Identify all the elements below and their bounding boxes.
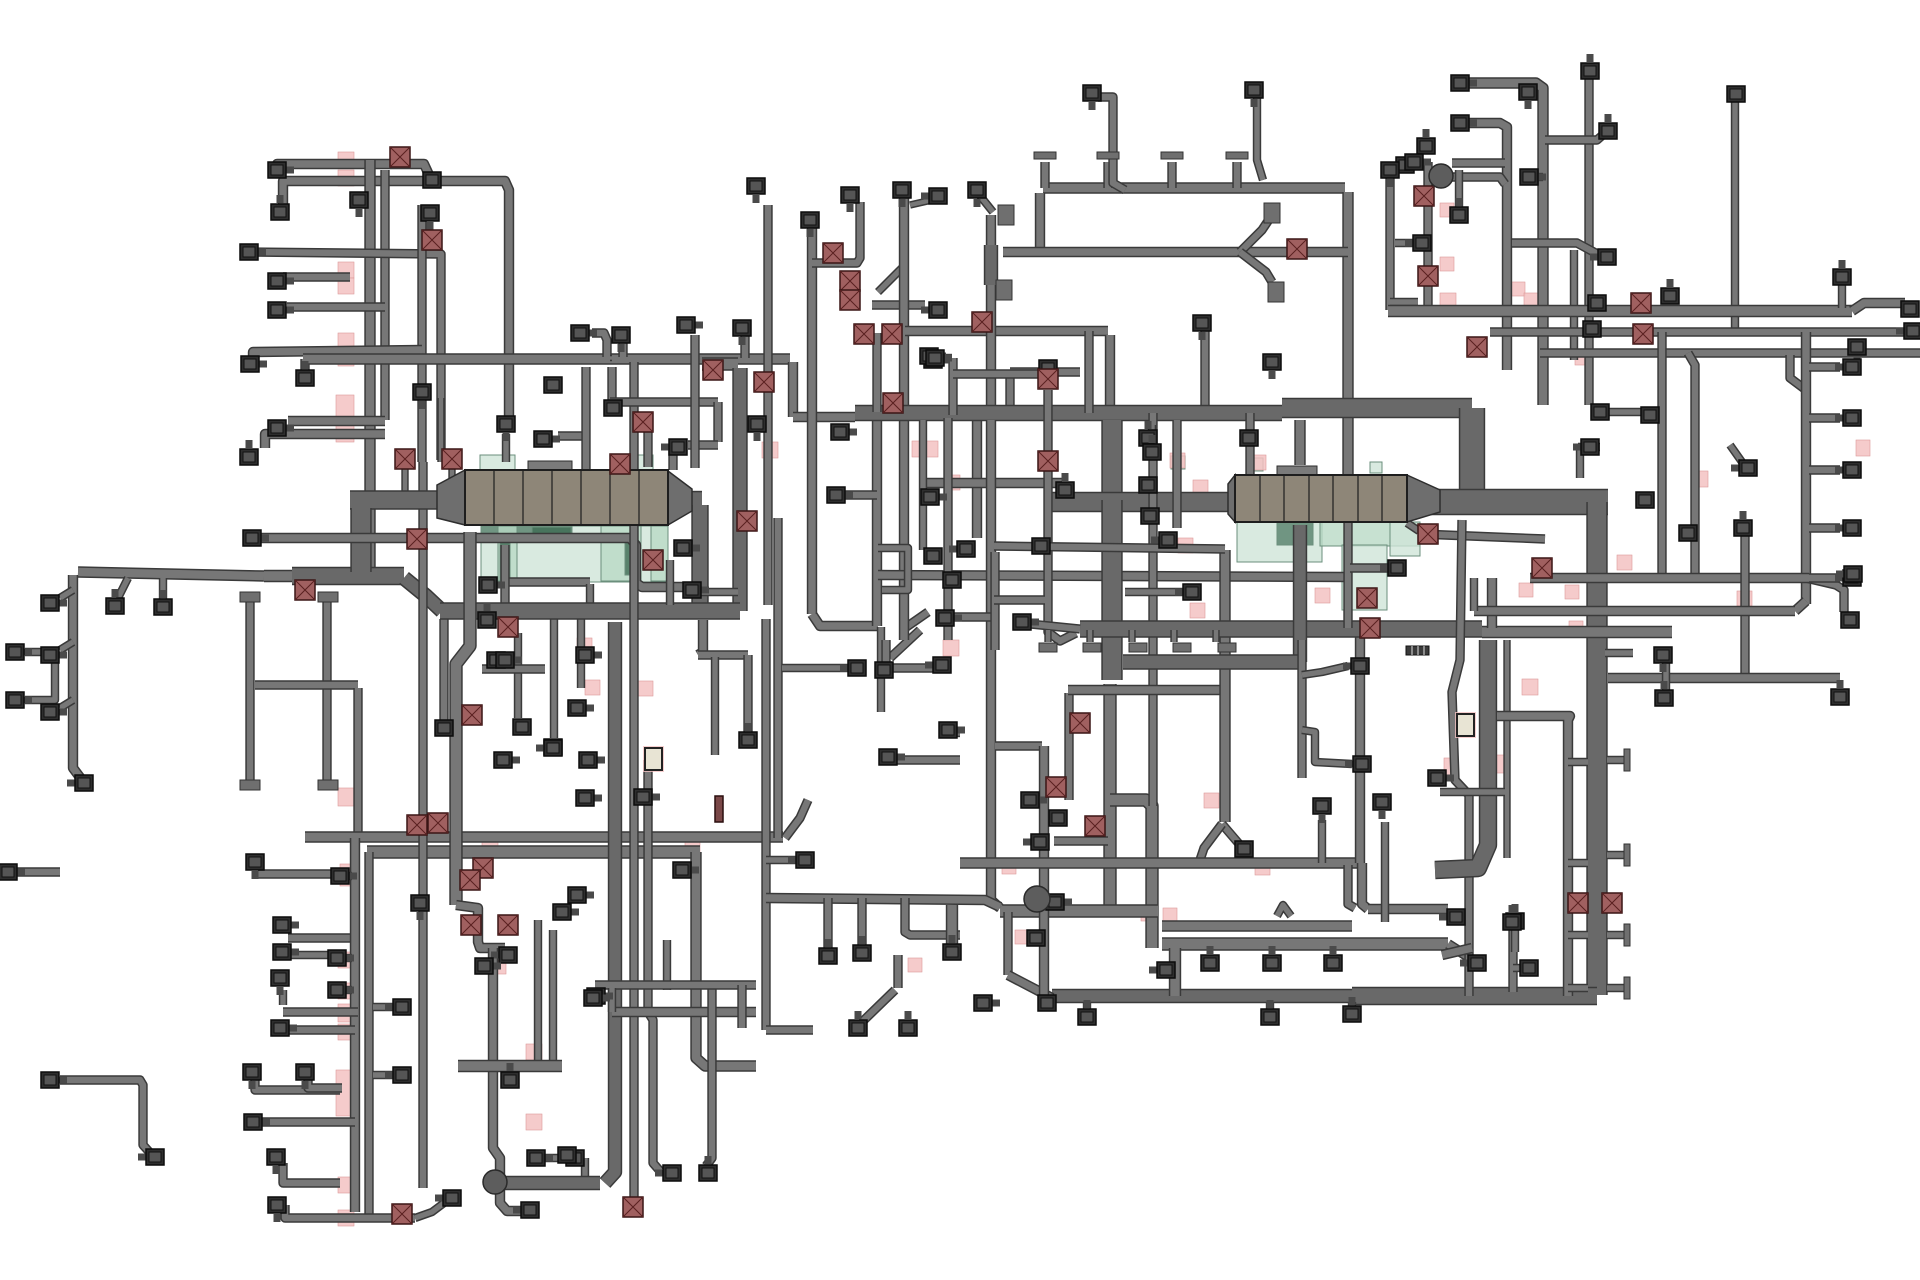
diffuser D152 bbox=[1581, 54, 1599, 79]
duct run W154 bbox=[1257, 93, 1263, 180]
diffuser D149 bbox=[1450, 198, 1468, 223]
mount plate T12 bbox=[318, 780, 338, 790]
duct run W10 bbox=[300, 359, 309, 374]
damper tag P57 bbox=[1856, 440, 1870, 456]
duct run W197 bbox=[1362, 863, 1368, 909]
diffuser D4 bbox=[268, 302, 294, 318]
diffuser D106 bbox=[1151, 532, 1177, 548]
duct run W259 bbox=[1530, 573, 1809, 583]
damper tag P48 bbox=[1575, 350, 1590, 365]
diffuser D69 bbox=[494, 752, 520, 768]
duct run W229 bbox=[1462, 83, 1543, 405]
fire damper M38 bbox=[1633, 324, 1653, 344]
duct run W74 bbox=[493, 948, 527, 1211]
duct run W11 bbox=[303, 353, 790, 364]
diffuser D27 bbox=[41, 595, 67, 611]
duct run W19 bbox=[60, 590, 73, 598]
diffuser D85 bbox=[924, 352, 950, 368]
diffuser D123 bbox=[899, 1011, 917, 1036]
duct run W231 bbox=[1584, 75, 1593, 405]
duct run W242 bbox=[1838, 282, 1846, 308]
AHU coil zone G4 bbox=[498, 526, 517, 581]
damper tag P39 bbox=[1315, 588, 1330, 603]
diffuser D108 bbox=[879, 749, 905, 765]
damper tag P47 bbox=[1440, 293, 1456, 311]
duct run W54 bbox=[448, 464, 455, 492]
duct run W24 bbox=[25, 652, 55, 700]
duct run W274 bbox=[1442, 948, 1472, 955]
duct run W140 bbox=[1010, 367, 1080, 376]
diffuser D15 bbox=[479, 577, 505, 593]
duct run W181 bbox=[1390, 298, 1418, 306]
duct run W285 bbox=[842, 490, 877, 499]
diffuser D98 bbox=[1235, 841, 1253, 857]
fire damper M21 bbox=[840, 271, 860, 291]
duct run W58 bbox=[437, 398, 444, 462]
damper tag P15 bbox=[336, 1070, 353, 1116]
diffuser D45 bbox=[296, 1064, 314, 1089]
diffuser D173 bbox=[1841, 612, 1859, 628]
fire damper M32 bbox=[1287, 239, 1307, 259]
diffuser D19 bbox=[487, 652, 513, 668]
duct run W176 bbox=[995, 741, 1042, 750]
damper tag P8 bbox=[336, 420, 354, 442]
duct run W200 bbox=[1318, 820, 1326, 863]
fire damper M19 bbox=[737, 511, 757, 531]
diffuser D185 bbox=[926, 350, 952, 366]
diffuser D88 bbox=[949, 541, 975, 557]
duct run W47 bbox=[337, 986, 352, 994]
duct run W210 bbox=[1030, 624, 1080, 629]
diffuser D134 bbox=[1083, 85, 1101, 110]
duct run W284 bbox=[872, 333, 881, 412]
damper tag P26 bbox=[762, 442, 778, 458]
duct run W65 bbox=[550, 619, 558, 738]
diffuser D87 bbox=[921, 489, 947, 505]
AHU coil zone G6 bbox=[651, 526, 668, 581]
duct run W97 bbox=[872, 412, 882, 626]
duct run W111 bbox=[740, 333, 749, 358]
diffuser D144 bbox=[1896, 323, 1920, 339]
duct run W53 bbox=[401, 464, 408, 492]
damper tag P32 bbox=[1002, 860, 1016, 874]
duct run W241 bbox=[1852, 303, 1905, 311]
diffuser D90 bbox=[936, 610, 962, 626]
diffuser D56 bbox=[475, 958, 501, 974]
diffuser D67 bbox=[536, 740, 562, 756]
diffuser D68 bbox=[496, 652, 522, 668]
damper tag P3 bbox=[338, 262, 354, 278]
diffuser D28 bbox=[41, 647, 67, 663]
duct run W2 bbox=[283, 181, 509, 418]
duct run W247 bbox=[1608, 408, 1662, 416]
duct run W44 bbox=[285, 1205, 415, 1218]
duct run W95 bbox=[782, 664, 850, 672]
damper tag P20 bbox=[526, 1044, 542, 1060]
duct run W118 bbox=[610, 397, 718, 406]
duct run W295 bbox=[946, 905, 958, 950]
duct run W263 bbox=[1503, 640, 1510, 858]
duct run W129 bbox=[872, 300, 925, 309]
duct run W72 bbox=[456, 532, 470, 905]
diffuser D26 bbox=[413, 384, 431, 409]
diffuser D127 bbox=[1261, 1000, 1279, 1025]
fire damper M29 bbox=[1070, 713, 1090, 733]
diffuser D97 bbox=[1023, 834, 1049, 850]
duct run W158 bbox=[1412, 489, 1608, 515]
duct run W268 bbox=[1474, 606, 1795, 616]
fire damper M40 bbox=[1568, 893, 1588, 913]
duct run W193 bbox=[990, 552, 999, 650]
duct run W12 bbox=[288, 416, 385, 426]
diffuser D55 bbox=[491, 947, 517, 963]
diffuser D138 bbox=[1396, 157, 1422, 173]
duct run W253 bbox=[1795, 601, 1806, 611]
diffuser D61 bbox=[576, 647, 602, 663]
duct run W172 bbox=[1277, 905, 1291, 916]
diffuser D25 bbox=[421, 205, 439, 230]
duct run W41 bbox=[308, 1078, 342, 1088]
duct run W275 bbox=[1607, 756, 1624, 764]
duct run W61 bbox=[500, 545, 509, 604]
AHU coil zone G1 bbox=[481, 526, 668, 582]
diffuser D107 bbox=[1240, 430, 1258, 446]
diffuser D119 bbox=[655, 1165, 681, 1181]
damper tag P9 bbox=[338, 952, 354, 968]
diffuser D50 bbox=[138, 1149, 164, 1165]
duct run W110 bbox=[793, 412, 855, 422]
duct run W223 bbox=[1125, 588, 1188, 596]
duct run W287 bbox=[994, 546, 1225, 549]
diffuser D30 bbox=[106, 589, 124, 614]
duct run W204 bbox=[1513, 964, 1526, 972]
diffuser D1 bbox=[268, 162, 294, 178]
duct run W136 bbox=[878, 575, 1348, 577]
duct run W230 bbox=[1462, 123, 1507, 370]
duct run W9 bbox=[253, 350, 422, 368]
duct run W142 bbox=[1200, 330, 1209, 413]
diffuser D174 bbox=[1836, 566, 1862, 582]
diffuser D170 bbox=[1654, 647, 1672, 672]
duct run W207 bbox=[1348, 1002, 1356, 1010]
duct run W101 bbox=[706, 988, 712, 1166]
diffuser D81 bbox=[841, 187, 859, 212]
duct run W291 bbox=[766, 898, 1000, 907]
duct run W293 bbox=[857, 898, 866, 948]
duct run W203 bbox=[1508, 922, 1517, 992]
diffuser D22 bbox=[296, 361, 314, 386]
diffuser D70 bbox=[634, 789, 660, 805]
duct run W205 bbox=[1083, 1002, 1091, 1012]
duct run W209 bbox=[1482, 626, 1672, 638]
diffuser D14 bbox=[243, 530, 269, 546]
mount plate T8 bbox=[1268, 282, 1284, 302]
diffuser D130 bbox=[1263, 946, 1281, 971]
mount plate T3 bbox=[1161, 152, 1183, 159]
fire damper M30 bbox=[1046, 777, 1066, 797]
diffuser D165 bbox=[1835, 462, 1861, 478]
duct run W46 bbox=[337, 954, 352, 962]
diffuser D109 bbox=[939, 722, 965, 738]
diffuser D3 bbox=[268, 273, 294, 289]
duct run W150 bbox=[1003, 247, 1348, 257]
duct run W125 bbox=[690, 335, 699, 468]
duct run W22 bbox=[118, 578, 128, 598]
diffuser D147 bbox=[1451, 75, 1477, 91]
duct run W251 bbox=[1801, 332, 1811, 604]
diffuser D33 bbox=[6, 644, 32, 660]
diffuser D47 bbox=[267, 1149, 285, 1174]
duct run W235 bbox=[1452, 158, 1505, 167]
damper tag P49 bbox=[1692, 471, 1708, 487]
duct run W124 bbox=[700, 588, 738, 596]
duct run W163 bbox=[1052, 492, 1228, 512]
duct run W63 bbox=[439, 619, 448, 722]
duct run W217 bbox=[1294, 420, 1305, 465]
diffuser D9 bbox=[544, 377, 562, 393]
fire damper M37 bbox=[1631, 293, 1651, 313]
diffuser D160 bbox=[1573, 439, 1599, 455]
damper tag P56 bbox=[1444, 758, 1458, 776]
duct run W82 bbox=[629, 362, 638, 1200]
diffuser D78 bbox=[801, 212, 819, 237]
duct run W114 bbox=[502, 434, 510, 462]
damper tag P52 bbox=[1565, 585, 1579, 599]
fire damper M31 bbox=[1085, 816, 1105, 836]
diffuser D58 bbox=[527, 1150, 553, 1166]
mount plate T15 bbox=[1129, 643, 1147, 652]
diffuser D104 bbox=[1139, 477, 1157, 493]
duct run W301 bbox=[737, 985, 746, 1028]
diffuser D64 bbox=[576, 790, 602, 806]
fire damper M39 bbox=[1532, 558, 1552, 578]
diffuser D189 bbox=[1175, 584, 1201, 600]
duct run W272 bbox=[1662, 658, 1670, 695]
diffuser D72 bbox=[739, 723, 757, 748]
duct run W119 bbox=[713, 402, 722, 442]
diffuser D139 bbox=[1381, 162, 1399, 187]
duct run W179 bbox=[1423, 162, 1432, 310]
duct run W6 bbox=[283, 272, 350, 281]
diffuser D188 bbox=[1380, 560, 1406, 576]
diffuser D164 bbox=[1835, 410, 1861, 426]
diffuser D83 bbox=[921, 188, 947, 204]
duct run W91 bbox=[761, 619, 770, 1030]
duct run W87 bbox=[698, 620, 703, 655]
duct run W165 bbox=[1103, 684, 1116, 905]
AHU coil zone G17 bbox=[1370, 462, 1382, 473]
duct run W137 bbox=[986, 215, 996, 420]
diffuser D143 bbox=[1661, 279, 1679, 304]
duct run W147 bbox=[1103, 162, 1112, 188]
duct run W237 bbox=[1455, 170, 1463, 212]
duct run W127 bbox=[877, 627, 885, 712]
diffuser D71 bbox=[673, 862, 699, 878]
AHU coil zone G13 bbox=[1320, 522, 1420, 546]
duct run W28 bbox=[255, 680, 358, 689]
diffuser D163 bbox=[1835, 359, 1861, 375]
duct run W227 bbox=[1302, 666, 1348, 675]
fire damper M34 bbox=[1418, 266, 1438, 286]
duct run W244 bbox=[1540, 348, 1920, 357]
duct run W162 bbox=[1101, 420, 1122, 500]
fire damper M22 bbox=[840, 290, 860, 310]
diffuser D172 bbox=[1831, 680, 1849, 705]
duct run W296 bbox=[890, 755, 960, 764]
duct run W109 bbox=[788, 362, 798, 417]
duct run W60 bbox=[586, 584, 594, 604]
duct run W282 bbox=[948, 358, 957, 415]
diffuser D182 bbox=[1439, 909, 1465, 925]
diffuser D38 bbox=[273, 944, 299, 960]
damper tag P19 bbox=[492, 960, 506, 974]
duct run W257 bbox=[1809, 523, 1840, 532]
duct run W37 bbox=[279, 990, 287, 1005]
AHU coil zone G7 bbox=[500, 538, 510, 580]
damper tag P43 bbox=[1440, 257, 1454, 271]
diffuser D122 bbox=[849, 1011, 867, 1036]
fire damper M45 bbox=[460, 870, 480, 890]
duct run W233 bbox=[1570, 250, 1578, 360]
diffuser D153 bbox=[1599, 114, 1617, 139]
duct run W273 bbox=[1511, 928, 1519, 952]
AHU coil zone G11 bbox=[1237, 522, 1322, 562]
damper tag P29 bbox=[908, 958, 922, 972]
duct run W218 bbox=[1293, 525, 1307, 662]
duct run W194 bbox=[1048, 390, 1076, 641]
diffuser D76 bbox=[733, 320, 751, 345]
duct run W196 bbox=[1355, 637, 1365, 863]
diffuser D10 bbox=[534, 431, 560, 447]
duct run W185 bbox=[1084, 331, 1093, 413]
diffuser D186 bbox=[1013, 614, 1039, 630]
duct run W208 bbox=[1080, 620, 1482, 637]
duct run W156 bbox=[1282, 398, 1472, 418]
duct run W45 bbox=[340, 872, 352, 880]
duct run W70 bbox=[691, 505, 708, 611]
diffuser D129 bbox=[1201, 946, 1219, 971]
diffuser D162 bbox=[1731, 460, 1757, 476]
duct run W243 bbox=[1490, 327, 1920, 336]
duct run W92 bbox=[766, 856, 797, 864]
diffuser D136 bbox=[1193, 315, 1211, 340]
diffuser D148 bbox=[1451, 115, 1477, 131]
duct run W177 bbox=[1039, 746, 1049, 998]
duct run W86 bbox=[663, 940, 671, 990]
diffuser D12 bbox=[677, 317, 703, 333]
duct run W249 bbox=[1578, 443, 1600, 451]
diffuser D133 bbox=[968, 182, 986, 207]
AHU coil zone G8 bbox=[625, 538, 635, 575]
fire damper M28 bbox=[1038, 451, 1058, 471]
diffuser D16 bbox=[478, 603, 496, 628]
fire damper M1 bbox=[390, 147, 410, 167]
duct run W289 bbox=[943, 418, 952, 640]
AHU coil zone G18 bbox=[1171, 456, 1185, 469]
duct run W152 bbox=[1240, 252, 1272, 282]
duct run W175 bbox=[1008, 975, 1052, 998]
diffuser D103 bbox=[1345, 756, 1371, 772]
AHU coil zone G3 bbox=[532, 527, 572, 538]
duct run W78 bbox=[545, 1154, 568, 1162]
round damper R2 bbox=[1024, 886, 1050, 912]
diffuser D142 bbox=[1727, 86, 1745, 102]
duct run W122 bbox=[643, 430, 652, 467]
duct run W188 bbox=[1219, 550, 1230, 822]
mount plate T13 bbox=[1039, 643, 1057, 652]
duct run W90 bbox=[743, 655, 752, 733]
duct run W281 bbox=[938, 354, 952, 362]
fire damper M13 bbox=[407, 529, 427, 549]
duct run W96 bbox=[812, 614, 878, 626]
diffuser D41 bbox=[328, 982, 354, 998]
duct run W36 bbox=[364, 852, 373, 1218]
diffuser D175 bbox=[1506, 904, 1524, 929]
mount plate T17 bbox=[1218, 643, 1236, 652]
duct run W106 bbox=[592, 333, 607, 357]
damper tag P27 bbox=[912, 441, 938, 457]
damper tag P55 bbox=[1496, 755, 1510, 773]
strip diffuser S1 bbox=[1406, 646, 1429, 655]
damper tag P36 bbox=[1178, 538, 1193, 553]
duct run W43 bbox=[283, 1163, 340, 1183]
diffuser D161 bbox=[1679, 525, 1697, 541]
diffuser D117 bbox=[584, 990, 610, 1006]
duct run W62 bbox=[702, 357, 738, 370]
thermostat B2 bbox=[1455, 712, 1476, 738]
diffuser D157 bbox=[1583, 321, 1601, 337]
duct run W77 bbox=[458, 1060, 562, 1072]
mount plate T5 bbox=[998, 205, 1014, 225]
AHU coil zone G15 bbox=[1390, 522, 1420, 556]
fire damper M26 bbox=[972, 312, 992, 332]
duct run W170 bbox=[1162, 937, 1448, 950]
duct run W187 bbox=[1068, 685, 1222, 695]
duct run W128 bbox=[878, 265, 905, 292]
duct run W66 bbox=[577, 619, 585, 688]
duct run W211 bbox=[1044, 630, 1051, 642]
diffuser D121 bbox=[513, 1202, 539, 1218]
damper tag P16 bbox=[338, 1177, 354, 1193]
diffuser D111 bbox=[819, 939, 837, 964]
diffuser D95 bbox=[1021, 792, 1047, 808]
fire damper M24 bbox=[882, 324, 902, 344]
diffuser D137 bbox=[1417, 129, 1435, 154]
diffuser D124 bbox=[1038, 995, 1056, 1011]
fire damper M41 bbox=[1602, 893, 1622, 913]
damper tag P24 bbox=[638, 681, 653, 696]
duct run W73 bbox=[456, 905, 505, 948]
duct run W123 bbox=[666, 560, 674, 605]
fire damper M43 bbox=[1467, 337, 1487, 357]
diffuser D66 bbox=[553, 904, 579, 920]
diffuser D151 bbox=[1519, 84, 1537, 109]
diffuser D37 bbox=[273, 917, 299, 933]
damper tag P25 bbox=[685, 841, 700, 856]
duct run W133 bbox=[905, 326, 1108, 336]
diffuser D100 bbox=[1149, 962, 1175, 978]
diffuser D32 bbox=[67, 775, 93, 791]
damper tag P17 bbox=[338, 1210, 354, 1226]
duct run W33 bbox=[288, 933, 355, 942]
fire damper M3 bbox=[295, 580, 315, 600]
duct run W167 bbox=[1148, 413, 1157, 806]
duct run W7 bbox=[287, 302, 385, 311]
duct run W160 bbox=[1352, 987, 1597, 1005]
diffuser D177 bbox=[1263, 354, 1281, 379]
diffuser D184 bbox=[1520, 960, 1538, 976]
duct run W299 bbox=[881, 640, 890, 668]
